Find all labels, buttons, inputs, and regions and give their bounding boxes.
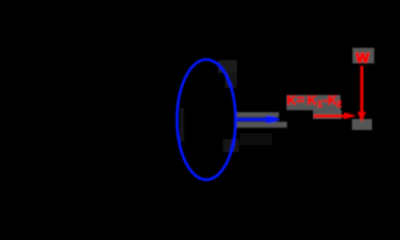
svg-text:W: W — [356, 49, 370, 65]
svg-text:=: = — [297, 92, 305, 107]
svg-text:K: K — [307, 93, 317, 108]
svg-text:K: K — [287, 93, 297, 108]
svg-text:2: 2 — [337, 99, 342, 109]
